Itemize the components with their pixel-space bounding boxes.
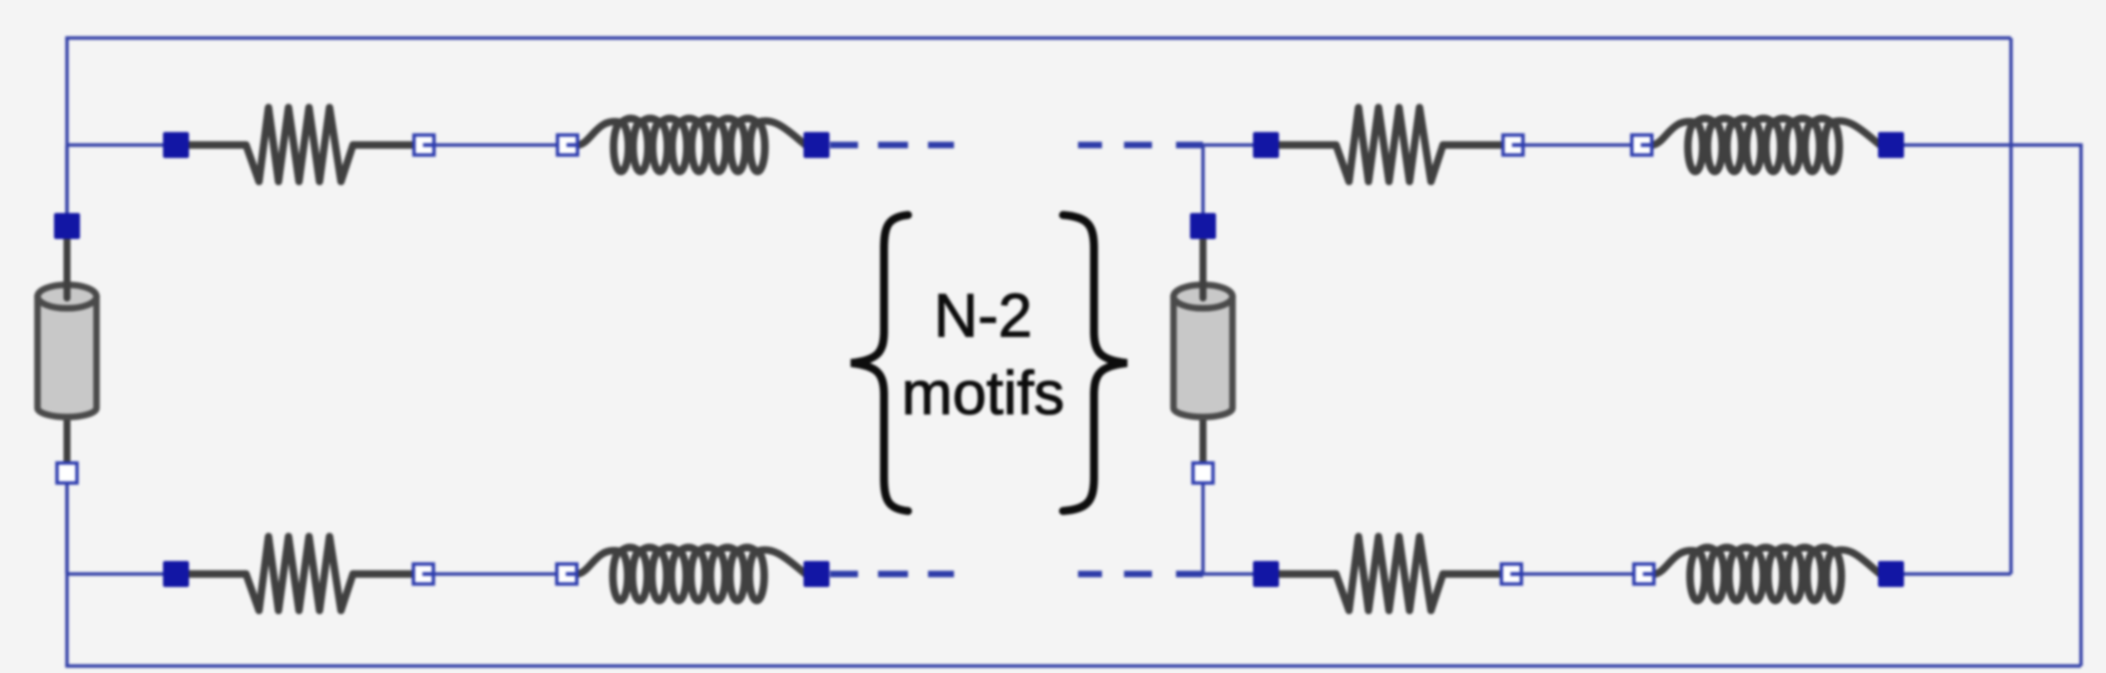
wire: dashed continuation, bottom row: [830, 571, 858, 577]
wire: bottom row between terminals (right motif): [1521, 572, 1634, 575]
svg-text:motifs: motifs: [902, 359, 1065, 427]
terminal: bottom left resistor output: [413, 564, 433, 584]
terminal: top right resistor output: [1503, 135, 1523, 155]
wire: bottom row middle node to right resistor: [1203, 572, 1266, 575]
svg-text:N-2: N-2: [934, 282, 1032, 350]
wire: left column cell branch lower: [65, 483, 68, 574]
terminal: middle cell bottom: [1193, 463, 1213, 483]
terminal: top right inductor input: [1632, 135, 1652, 155]
cell / source (middle column cylinder): [1174, 297, 1233, 418]
annotation: left curly brace: [851, 215, 908, 511]
resistor (top left): [187, 108, 413, 182]
wire: middle column cell branch upper: [1201, 145, 1204, 216]
cell / source (left column cylinder): [38, 297, 97, 417]
node: top left inductor output: [804, 132, 830, 158]
node: bottom left inductor output: [804, 561, 830, 587]
wire: bottom row between terminals (left motif): [433, 572, 556, 575]
inductor (bottom right): [1655, 548, 1880, 575]
wire: top row left stub: [67, 143, 176, 146]
annotation: right curly brace: [1063, 215, 1127, 511]
inductor (top left): [579, 119, 806, 146]
wire: dashed continuation, top row: [830, 142, 858, 148]
wire: outer loop left vertical: [65, 38, 68, 666]
resistor (bottom right): [1277, 537, 1500, 611]
wire: bottom border: [65, 664, 2081, 667]
wire: outer right vertical (top row down to bottom border): [2079, 145, 2082, 666]
inductor (bottom left): [578, 548, 806, 575]
lead: left cell bottom: [64, 412, 71, 466]
node: top right inductor output: [1878, 132, 1904, 158]
node: bottom row input (left motif): [163, 561, 189, 587]
wire: bottom row left stub: [67, 572, 176, 575]
wire: inner right vertical (bottom row up to top border): [2009, 38, 2012, 574]
wire: top row middle node to right resistor: [1203, 143, 1266, 146]
wire: middle column cell branch lower: [1201, 483, 1204, 574]
wire: top row between terminals (right motif): [1523, 143, 1632, 146]
node: bottom row input (right motif): [1253, 561, 1279, 587]
terminal: bottom left inductor input: [557, 564, 577, 584]
node: top row input (right motif): [1253, 132, 1279, 158]
node: left cell top: [54, 213, 80, 239]
lead: middle cell bottom: [1200, 412, 1207, 466]
wire: bottom right inductor to inner vertical: [1901, 572, 2011, 575]
terminal: bottom right resistor output: [1501, 564, 1521, 584]
wire: top border: [65, 36, 2011, 39]
terminal: top left resistor output: [414, 135, 434, 155]
terminal: left cell bottom: [57, 463, 77, 483]
inductor (top right): [1653, 119, 1880, 146]
wire: top row between terminals (left motif): [434, 143, 557, 146]
wire: left column cell branch upper: [65, 145, 68, 216]
node: bottom right inductor output: [1878, 561, 1904, 587]
resistor (top right): [1277, 108, 1502, 182]
terminal: bottom right inductor input: [1634, 564, 1654, 584]
node: middle cell top: [1190, 213, 1216, 239]
terminal: top left inductor input: [558, 135, 578, 155]
node: top row input (left motif): [163, 132, 189, 158]
resistor (bottom left): [187, 537, 412, 611]
wire: top right inductor to outer vertical: [1901, 143, 2083, 146]
